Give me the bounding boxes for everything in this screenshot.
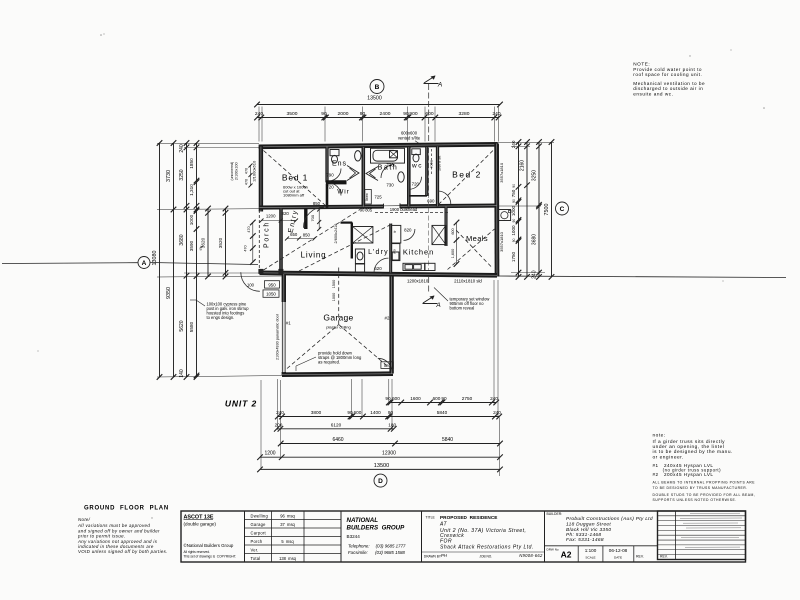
- svg-text:DATE: DATE: [614, 556, 622, 560]
- svg-text:3500: 3500: [287, 111, 298, 117]
- title block vertical nbg-title: [421, 511, 423, 562]
- svg-text:Telephone: (03) 9685 1777: Telephone: (03) 9685 1777: [348, 544, 406, 549]
- svg-text:1750: 1750: [511, 251, 516, 262]
- grid marker C circle: [556, 202, 569, 215]
- svg-text:140: 140: [179, 369, 185, 378]
- svg-text:PROPOSED RESIDENCE: PROPOSED RESIDENCE: [440, 515, 497, 520]
- svg-text:under an opening, the lintel: under an opening, the lintel: [653, 444, 725, 450]
- wall exterior right: [494, 144, 499, 277]
- section marker A bottom flag: [423, 303, 438, 305]
- svg-text:690: 690: [427, 198, 435, 203]
- svg-text:Shack Attack Restorations Pty: Shack Attack Restorations Pty Ltd.: [440, 545, 534, 551]
- svg-text:720: 720: [412, 182, 420, 187]
- svg-text:90: 90: [321, 111, 327, 117]
- top segmented dim line: [257, 117, 499, 119]
- svg-text:850: 850: [303, 233, 311, 238]
- svg-text:1080mm aff: 1080mm aff: [283, 193, 305, 198]
- wall bottom living-meals: [260, 273, 498, 276]
- ens basin: [355, 151, 361, 161]
- cypress note leader: [196, 300, 205, 306]
- door arc wir: [329, 183, 342, 196]
- left dim line3: [186, 143, 188, 377]
- svg-text:1200: 1200: [266, 214, 276, 219]
- svg-text:plaster ceiling: plaster ceiling: [326, 325, 350, 330]
- svg-text:A: A: [437, 82, 442, 89]
- svg-text:(double garage): (double garage): [184, 522, 217, 527]
- svg-text:240: 240: [532, 270, 538, 279]
- dashed garage truss V right: [339, 325, 389, 368]
- svg-text:730: 730: [386, 163, 394, 168]
- top overall dim 13500: [257, 104, 500, 106]
- scan specks: [37, 33, 764, 518]
- kitchen bench: [403, 263, 425, 270]
- svg-text:ensuite and wc.: ensuite and wc.: [633, 92, 673, 97]
- svg-text:B: B: [375, 84, 380, 91]
- svg-text:FOR: FOR: [440, 538, 452, 544]
- wall wir-bath: [361, 147, 365, 207]
- svg-text:©National Builders Group: ©National Builders Group: [184, 543, 234, 548]
- svg-text:600: 600: [433, 396, 441, 401]
- wall exterior left: [259, 147, 263, 212]
- svg-text:1200x1810: 1200x1810: [407, 279, 429, 284]
- svg-text:3800: 3800: [311, 410, 322, 415]
- boxed dim 1050: [263, 290, 279, 297]
- dashed diagonal meals 2: [455, 229, 491, 267]
- svg-text:roof space for cooling unit.: roof space for cooling unit.: [633, 72, 702, 77]
- entry dim line mid: [287, 238, 315, 240]
- svg-text:138 msq: 138 msq: [279, 556, 297, 561]
- svg-text:#2 200x45 Hyspan LVL: #2 200x45 Hyspan LVL: [653, 472, 714, 477]
- svg-text:L’dry: L’dry: [368, 249, 389, 256]
- porch post left: [259, 269, 263, 273]
- left dim 3730-9350: [173, 143, 175, 377]
- svg-text:A: A: [142, 260, 147, 267]
- svg-text:N9008-662: N9008-662: [519, 553, 543, 558]
- svg-text:Note/: Note/: [78, 517, 91, 522]
- dashed diagonal bed1: [264, 151, 326, 206]
- svg-text:Black Hill Vic 3350: Black Hill Vic 3350: [566, 527, 611, 533]
- svg-text:3280: 3280: [459, 111, 470, 117]
- title block vertical table cols: [271, 511, 273, 562]
- svg-text:3557x1810: 3557x1810: [499, 231, 504, 252]
- robe dashed line bed2: [431, 149, 433, 176]
- svg-text:2160: 2160: [520, 160, 526, 171]
- section line A-A vertical upper: [428, 84, 430, 143]
- svg-text:3250: 3250: [532, 170, 538, 181]
- door arc front entry: [304, 207, 325, 228]
- wall middle horizontal: [260, 206, 497, 208]
- svg-text:9350: 9350: [166, 287, 172, 299]
- svg-text:900: 900: [409, 111, 417, 117]
- right dim detail line: [518, 142, 520, 277]
- svg-text:1000: 1000: [332, 293, 336, 301]
- bottom dim row5: [260, 456, 500, 458]
- svg-text:13080: 13080: [152, 251, 158, 266]
- svg-text:or engineer.: or engineer.: [653, 454, 684, 460]
- door arc garage rear: [378, 358, 393, 373]
- svg-text:470: 470: [244, 245, 248, 251]
- wall ldry-kitchen: [389, 224, 392, 273]
- grid marker A circle left: [138, 257, 150, 269]
- dashed garage truss V left: [287, 325, 339, 369]
- svg-text:(uncovered): (uncovered): [230, 162, 234, 181]
- bottom dim row3: [277, 428, 394, 430]
- svg-text:linen: linen: [365, 193, 369, 201]
- svg-text:620: 620: [374, 266, 382, 271]
- dashed diagonal bed2: [439, 149, 496, 205]
- wall wir left lower: [326, 184, 329, 208]
- section line A-A vertical through plan: [428, 148, 430, 271]
- left dim 3620: [207, 209, 209, 277]
- svg-text:3250: 3250: [179, 169, 185, 180]
- bottom dim row4: [281, 443, 500, 445]
- svg-text:90 805: 90 805: [360, 207, 373, 212]
- bottom extension lines: [260, 380, 262, 469]
- bath basin: [398, 172, 404, 182]
- svg-text:1,600: 1,600: [451, 249, 455, 259]
- dashed diagonal meals 1: [448, 229, 495, 270]
- svg-text:1200: 1200: [264, 451, 275, 457]
- svg-text:Ver.: Ver.: [251, 548, 259, 553]
- boxed dim 950: [265, 281, 280, 288]
- svg-text:robe: robe: [429, 159, 434, 168]
- svg-text:1000: 1000: [511, 225, 516, 236]
- svg-text:#1: #1: [286, 321, 291, 326]
- svg-text:2/870 slt: 2/870 slt: [436, 155, 441, 171]
- svg-text:200: 200: [275, 423, 283, 428]
- dashed diagonal living 1: [264, 210, 361, 271]
- svg-text:TITLE: TITLE: [426, 516, 436, 520]
- svg-text:Porch: Porch: [251, 539, 263, 544]
- svg-text:600: 600: [354, 410, 362, 415]
- svg-text:vented s/lite: vented s/lite: [398, 135, 421, 140]
- svg-text:Carport: Carport: [251, 531, 267, 536]
- section line A-A vertical lower: [428, 277, 430, 294]
- svg-text:Ens: Ens: [332, 161, 347, 168]
- svg-text:VOID unless signed off by both: VOID unless signed off by both parties.: [78, 549, 168, 554]
- wall ldry top nib: [341, 222, 353, 224]
- svg-text:NOTE:: NOTE:: [633, 62, 650, 67]
- svg-text:2110x1810 sld: 2110x1810 sld: [454, 279, 482, 284]
- svg-text:#2: #2: [385, 316, 390, 321]
- title block vertical title-builder: [544, 511, 546, 562]
- wall garage right: [389, 277, 393, 374]
- nib wall ens-wir: [326, 180, 347, 184]
- svg-text:JOB NO.: JOB NO.: [479, 555, 492, 559]
- svg-text:Probuilt Constructions (Aus) P: Probuilt Constructions (Aus) Pty Ltd: [566, 516, 653, 522]
- door arc porch corner outside: [241, 272, 260, 291]
- svg-text:470: 470: [247, 226, 251, 232]
- bottom dim row1: [389, 402, 496, 404]
- ldry trough: [355, 249, 364, 264]
- svg-text:5840: 5840: [442, 437, 453, 443]
- svg-text:90: 90: [512, 199, 516, 203]
- svg-text:2/1000x610: 2/1000x610: [251, 160, 256, 182]
- svg-text:Dwelling: Dwelling: [251, 514, 269, 519]
- svg-text:PH: PH: [441, 553, 448, 558]
- bottom dim row6: [260, 468, 500, 470]
- ldry washing machine: [355, 264, 364, 272]
- garage hold down leader: [296, 357, 316, 366]
- svg-text:note:: note:: [653, 433, 666, 439]
- dashed bulkhead line: [375, 212, 450, 214]
- svg-text:1500: 1500: [332, 280, 336, 288]
- svg-text:3730: 3730: [166, 170, 172, 182]
- vent skylight leader: [415, 141, 421, 145]
- section line A-A left segment: [2, 262, 138, 265]
- svg-text:discharged to outside air in: discharged to outside air in: [633, 86, 703, 91]
- svg-text:Garage: Garage: [251, 522, 267, 527]
- wall exterior top: [259, 144, 498, 147]
- svg-text:180: 180: [388, 423, 396, 428]
- svg-text:1600: 1600: [410, 396, 421, 401]
- svg-text:This set of drawings is COPYR: This set of drawings is COPYRIGHT.: [184, 555, 237, 559]
- wall garage bottom: [282, 374, 393, 375]
- svg-text:1000: 1000: [511, 205, 516, 216]
- svg-text:90: 90: [388, 410, 394, 415]
- svg-text:as required.: as required.: [318, 360, 340, 365]
- right dim 3250-3680: [538, 142, 540, 277]
- svg-text:13500: 13500: [374, 463, 390, 469]
- svg-text:All rights reserved.: All rights reserved.: [184, 550, 211, 554]
- dim 520 garage door: [381, 362, 393, 369]
- ens toilet: [330, 150, 339, 156]
- svg-text:90: 90: [512, 219, 516, 223]
- right extension lines: [498, 141, 554, 143]
- svg-text:13500: 13500: [367, 95, 382, 101]
- svg-text:BUILDERS GROUP: BUILDERS GROUP: [347, 525, 406, 532]
- svg-text:90: 90: [512, 238, 516, 242]
- linen closet: [365, 190, 372, 205]
- svg-text:240: 240: [511, 140, 516, 148]
- left dim 13080: [159, 143, 161, 377]
- svg-text:37 msq: 37 msq: [280, 522, 295, 527]
- section line A-A right segment: [498, 276, 786, 278]
- svg-text:TO BE DESIGNED BY TRUSS MANUFA: TO BE DESIGNED BY TRUSS MANUFACTURER.: [653, 486, 748, 490]
- svg-text:470: 470: [245, 168, 249, 174]
- svg-text:2400: 2400: [380, 111, 391, 117]
- svg-text:to engs design.: to engs design.: [207, 315, 235, 320]
- svg-text:520: 520: [384, 363, 391, 368]
- svg-text:REV.: REV.: [660, 554, 668, 558]
- door arc ens: [329, 169, 342, 182]
- svg-text:Facsimile: (03) 9685 1588: Facsimile: (03) 9685 1588: [348, 550, 405, 555]
- svg-text:UNIT 2: UNIT 2: [225, 399, 257, 409]
- svg-text:725: 725: [374, 195, 382, 200]
- temporary window leader: [434, 288, 448, 302]
- svg-text:720: 720: [326, 185, 334, 190]
- svg-text:A: A: [435, 302, 440, 309]
- svg-text:DRW No: DRW No: [547, 548, 559, 552]
- svg-text:Wir: Wir: [337, 189, 349, 196]
- svg-text:Total: Total: [251, 556, 261, 561]
- porch dim 470 line: [252, 223, 254, 263]
- svg-text:790: 790: [326, 173, 334, 178]
- svg-text:Garage: Garage: [323, 313, 353, 323]
- svg-text:wc: wc: [411, 163, 423, 170]
- garage door opening thin lines: [282, 302, 284, 372]
- svg-text:D: D: [378, 478, 383, 485]
- svg-text:2000: 2000: [338, 111, 349, 117]
- svg-text:Living: Living: [301, 251, 327, 260]
- dashed porch roofline: [258, 210, 260, 271]
- svg-text:90: 90: [403, 111, 409, 117]
- svg-text:DOUBLE STUDS TO BE PROVIDED FO: DOUBLE STUDS TO BE PROVIDED FOR ALL BEAM…: [653, 493, 756, 497]
- svg-text:AT: AT: [439, 522, 447, 528]
- svg-text:820: 820: [282, 211, 290, 216]
- svg-text:90: 90: [347, 410, 353, 415]
- svg-text:2/100x100: 2/100x100: [235, 162, 239, 180]
- svg-text:06-12-08: 06-12-08: [609, 548, 628, 553]
- wall wc bottom nib: [409, 195, 427, 197]
- left wall dim 470 upper: [250, 165, 252, 186]
- svg-text:Porch: Porch: [264, 221, 271, 248]
- svg-text:SCALE: SCALE: [585, 556, 595, 560]
- svg-text:650: 650: [290, 232, 298, 237]
- svg-text:DRAWN BY: DRAWN BY: [424, 555, 442, 559]
- svg-text:600: 600: [392, 396, 400, 401]
- kitchen dim line: [456, 223, 458, 265]
- meals cupboard: [432, 225, 446, 244]
- svg-text:Meals: Meals: [466, 234, 488, 243]
- title block outer box: [181, 511, 746, 562]
- svg-text:bottom reveal: bottom reveal: [450, 306, 475, 311]
- bath shower screen: [366, 167, 378, 181]
- builder divider: [545, 545, 658, 547]
- svg-text:1000: 1000: [189, 214, 194, 225]
- door arc bath: [381, 165, 395, 179]
- wall entry nib: [304, 208, 307, 229]
- svg-text:5840: 5840: [437, 410, 448, 415]
- wall bath-wc: [407, 147, 411, 206]
- svg-text:ALL BEAMS TO INTERNAL PROPPING: ALL BEAMS TO INTERNAL PROPPING POINTS AR…: [653, 481, 756, 485]
- svg-text:2100x4930 panamatic door: 2100x4930 panamatic door: [276, 313, 280, 360]
- kitchen pantry: [391, 244, 400, 261]
- svg-text:NATIONAL: NATIONAL: [347, 517, 379, 524]
- door arc kitchen hall: [404, 229, 415, 240]
- svg-text:Fax: 5331-1468: Fax: 5331-1468: [566, 537, 604, 543]
- svg-text:950: 950: [268, 282, 276, 287]
- left extension lines: [157, 142, 259, 144]
- svg-text:GROUND FLOOR PLAN: GROUND FLOOR PLAN: [84, 505, 169, 511]
- svg-text:850: 850: [313, 201, 321, 206]
- svg-text:470: 470: [245, 179, 249, 185]
- svg-text:3680: 3680: [532, 234, 538, 245]
- svg-text:Kitchen: Kitchen: [403, 248, 434, 257]
- wall garage left: [282, 274, 286, 375]
- svg-text:90: 90: [441, 396, 447, 401]
- svg-text:90: 90: [512, 184, 516, 188]
- dashed garage centerline: [338, 268, 340, 325]
- svg-text:3557x1810: 3557x1810: [499, 162, 504, 183]
- wall bed1 right: [325, 147, 328, 183]
- left dim line4: [196, 143, 198, 377]
- svg-text:1,310: 1,310: [189, 184, 194, 196]
- title divider above drawn by: [422, 551, 545, 553]
- svg-text:12300: 12300: [382, 451, 396, 457]
- svg-text:600: 600: [451, 228, 455, 234]
- svg-text:240: 240: [179, 144, 185, 153]
- svg-text:6460: 6460: [332, 437, 343, 443]
- ens shower screen: [347, 166, 359, 181]
- svg-text:1850: 1850: [189, 158, 194, 169]
- wall wc right: [425, 147, 428, 196]
- door arc bed2: [438, 191, 451, 204]
- wall ldry left: [351, 223, 353, 259]
- wall bed2 left: [436, 147, 439, 207]
- svg-text:Bed 1: Bed 1: [282, 173, 308, 183]
- svg-text:5 msq: 5 msq: [281, 539, 294, 544]
- svg-text:2/600x2416: 2/600x2416: [334, 224, 338, 244]
- right dim 7500: [551, 142, 553, 277]
- svg-text:5580: 5580: [189, 321, 194, 332]
- bottom dim row2: [278, 416, 499, 418]
- hall opening in middle wall: [384, 203, 401, 208]
- svg-text:3590: 3590: [189, 240, 194, 251]
- top extension lines: [258, 107, 260, 142]
- svg-text:Ph: 5331-1468: Ph: 5331-1468: [566, 532, 601, 538]
- svg-text:3680: 3680: [179, 234, 185, 245]
- door arc wc: [409, 177, 422, 190]
- wall kitchen-meals: [444, 207, 447, 247]
- entry dim vline 700: [318, 209, 320, 230]
- door arc ldry rear: [374, 258, 389, 273]
- svg-text:C: C: [560, 206, 565, 213]
- dashed diagonal living 2: [299, 225, 391, 272]
- svg-text:96 msq: 96 msq: [280, 514, 295, 519]
- svg-text:Bed 2: Bed 2: [452, 170, 482, 180]
- entry dim line top: [262, 220, 297, 222]
- drw cells verticals: [577, 546, 579, 562]
- svg-text:240: 240: [493, 410, 501, 415]
- wall porch-living: [279, 209, 283, 273]
- svg-text:A2: A2: [561, 550, 572, 560]
- right dim 2160: [526, 142, 528, 277]
- wc toilet: [412, 149, 421, 155]
- svg-text:1:100: 1:100: [585, 548, 597, 553]
- svg-text:90: 90: [385, 396, 391, 401]
- svg-text:5620: 5620: [179, 320, 185, 331]
- grid marker B circle: [370, 80, 384, 94]
- svg-text:240: 240: [492, 111, 500, 117]
- section marker A top flag: [424, 83, 439, 85]
- svg-text:750: 750: [511, 189, 516, 197]
- section line A-A mid segment: [150, 263, 258, 265]
- area table row lines: [245, 519, 342, 521]
- svg-text:820: 820: [404, 228, 412, 233]
- revision scribbles: [690, 512, 740, 514]
- door leaf front entry: [304, 227, 306, 229]
- svg-text:BUILDER:: BUILDER:: [547, 512, 563, 516]
- ldry broom cupboard: [353, 227, 373, 244]
- kitchen fridge space: [391, 225, 401, 243]
- svg-text:700: 700: [310, 214, 315, 221]
- svg-text:1900 bulkhead: 1900 bulkhead: [390, 207, 418, 212]
- svg-text:118 Duggan Street: 118 Duggan Street: [566, 521, 611, 527]
- bath tub: [371, 148, 405, 163]
- hot water unit: [499, 210, 511, 221]
- grid marker D circle: [374, 474, 387, 487]
- svg-text:7500: 7500: [544, 204, 550, 216]
- left dim 3520: [225, 209, 227, 277]
- svg-text:6120: 6120: [331, 423, 342, 428]
- svg-text:730: 730: [386, 183, 394, 188]
- svg-text:wo: wo: [393, 249, 397, 254]
- svg-text:1400: 1400: [370, 410, 381, 415]
- svg-text:is to be designed by the manu.: is to be designed by the manu.: [653, 449, 733, 455]
- svg-text:SUPPORTS UNLESS NOTED OTHERWIS: SUPPORTS UNLESS NOTED OTHERWISE.: [653, 498, 737, 502]
- svg-text:REV.: REV.: [636, 555, 644, 559]
